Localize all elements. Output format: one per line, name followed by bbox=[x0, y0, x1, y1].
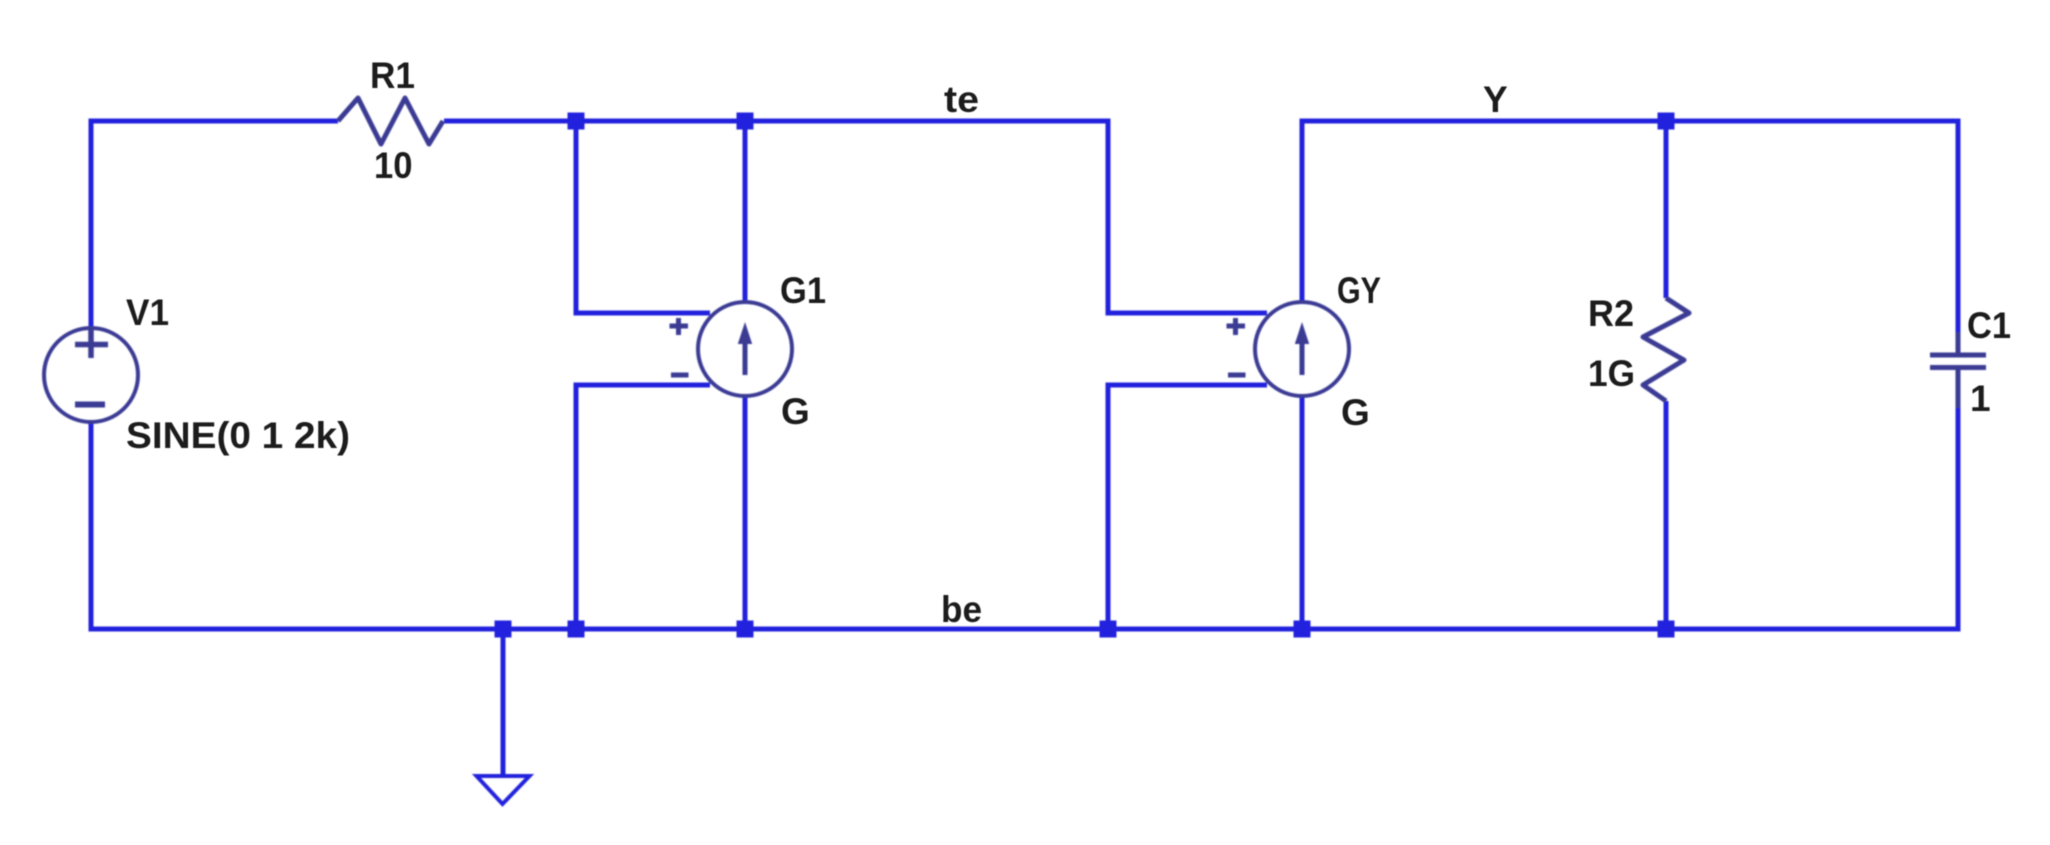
capacitor C1 bbox=[1930, 332, 1986, 408]
wire: R2 top pin bbox=[1664, 121, 1669, 298]
node junction bottom ground bbox=[495, 621, 512, 638]
svg-text:be: be bbox=[941, 589, 982, 630]
svg-text:R2: R2 bbox=[1588, 293, 1634, 334]
wire: V1 top to R1 left bbox=[91, 121, 338, 329]
vccs G1 bbox=[670, 302, 793, 396]
svg-text:te: te bbox=[944, 79, 979, 120]
wire: GY output top, net Y, down right side to C1 top bbox=[1302, 121, 1958, 352]
node junction top G1 plus bbox=[568, 113, 585, 130]
wire: GY output bottom pin bbox=[1300, 396, 1305, 629]
svg-text:SINE(0 1 2k): SINE(0 1 2k) bbox=[126, 415, 350, 456]
svg-text:10: 10 bbox=[374, 145, 413, 186]
svg-text:Y: Y bbox=[1483, 79, 1508, 120]
wire: R2 bottom pin bbox=[1664, 401, 1669, 629]
node junction bottom R2 bbox=[1658, 621, 1675, 638]
svg-text:G1: G1 bbox=[780, 270, 826, 311]
svg-text:GY: GY bbox=[1337, 270, 1381, 311]
node junction bottom G1 output bbox=[737, 621, 754, 638]
svg-text:R1: R1 bbox=[370, 55, 415, 96]
wire: ground stem bbox=[501, 629, 506, 774]
ground bbox=[477, 776, 530, 804]
svg-text:1: 1 bbox=[1970, 378, 1991, 419]
wire: G1 plus sense from top rail bbox=[576, 121, 710, 313]
svg-text:C1: C1 bbox=[1967, 305, 2011, 346]
svg-text:G: G bbox=[1341, 392, 1370, 433]
wire: G1 output bottom pin bbox=[743, 396, 748, 629]
wire: G1 output top pin bbox=[743, 121, 748, 302]
svg-text:1G: 1G bbox=[1588, 353, 1635, 394]
svg-text:V1: V1 bbox=[126, 292, 169, 333]
voltage source V1 bbox=[44, 328, 138, 422]
node junction top G1 output bbox=[737, 113, 754, 130]
node junction bottom G1 minus bbox=[568, 621, 585, 638]
wire: G1 minus sense to bottom rail bbox=[576, 385, 710, 629]
node junction bottom GY output bbox=[1294, 621, 1311, 638]
vccs GY bbox=[1227, 302, 1350, 396]
resistor R2 bbox=[1643, 298, 1689, 401]
node junction bottom GY minus bbox=[1100, 621, 1117, 638]
node junction top R2 bbox=[1658, 113, 1675, 130]
wire: R1 right through te corner down to GY plus stub bbox=[444, 121, 1267, 313]
resistor R1 bbox=[338, 98, 443, 144]
wire: GY minus sense to bottom rail bbox=[1108, 385, 1267, 629]
svg-text:G: G bbox=[781, 391, 810, 432]
wire: bottom rail be and V1 bottom and C1 bottom bbox=[91, 405, 1958, 629]
